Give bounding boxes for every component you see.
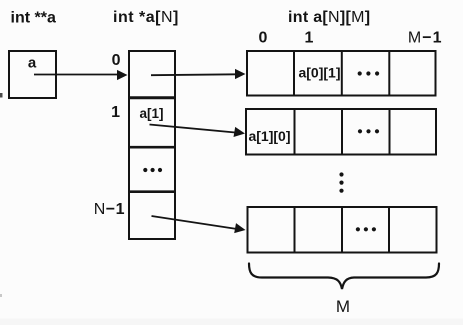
row N-1 array outline	[248, 207, 437, 253]
svg-text:0: 0	[259, 30, 268, 47]
box a (pointer variable int **a)	[9, 51, 56, 98]
brace under row N-1 spanning width M	[249, 264, 439, 290]
row N-1 cell divider 1	[294, 207, 296, 252]
column cell divider 1	[128, 96, 176, 99]
svg-text:M: M	[336, 297, 350, 316]
svg-text:a[0][1]: a[0][1]	[298, 65, 340, 81]
svg-text:int a[N][M]: int a[N][M]	[288, 9, 370, 26]
row 0 cell divider 1	[293, 51, 295, 95]
ellipsis in row N-1 cell 2	[356, 227, 360, 231]
svg-text:0: 0	[112, 52, 121, 69]
column cell divider 3	[128, 190, 176, 193]
vertical ellipsis between row 1 and row N-1	[339, 172, 343, 176]
column cell divider 2	[128, 146, 176, 149]
row 1 cell divider 2	[341, 109, 343, 154]
svg-text:1: 1	[111, 104, 120, 121]
row 1 cell divider 3	[389, 109, 391, 154]
svg-text:a: a	[28, 55, 37, 72]
wire arrow from column cell 0 to row 0	[151, 73, 237, 76]
row 0 array outline	[247, 51, 436, 96]
pointer column array int *a[N] outline	[129, 51, 175, 239]
row 0 cell divider 2	[341, 51, 343, 95]
row 1 array outline	[246, 109, 436, 155]
row N-1 cell divider 2	[341, 207, 343, 252]
svg-text:N−1: N−1	[94, 201, 125, 218]
wire arrow from column cell 1 (a[1]) to row 1	[150, 125, 237, 133]
ellipsis in column cell 2	[143, 168, 147, 172]
svg-text:int **a: int **a	[11, 10, 56, 27]
wire arrow from box a to column cell 0	[34, 74, 118, 76]
row N-1 cell divider 3	[388, 207, 390, 252]
svg-text:int *a[N]: int *a[N]	[113, 9, 179, 26]
ellipsis in row 0 cell 2	[358, 71, 362, 75]
svg-text:a[1][0]: a[1][0]	[248, 128, 290, 144]
ellipsis in row 1 cell 2	[358, 129, 362, 133]
svg-text:1: 1	[305, 30, 314, 47]
wire arrow from column cell N-1 to row N-1	[152, 216, 238, 229]
row 0 cell divider 3	[388, 51, 390, 95]
row 1 cell divider 1	[294, 109, 296, 154]
svg-text:a[1]: a[1]	[139, 106, 163, 121]
svg-text:M−1: M−1	[408, 30, 443, 47]
